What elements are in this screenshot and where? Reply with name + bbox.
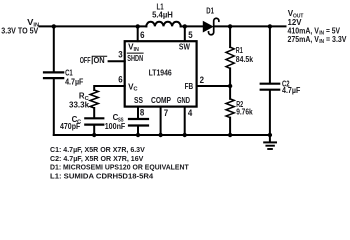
- svg-text:IN: IN: [134, 47, 139, 53]
- wire bottom rail: [54, 134, 270, 136]
- inductor L1: [146, 22, 180, 27]
- svg-text:SW: SW: [179, 41, 191, 51]
- svg-text:LT1946: LT1946: [149, 68, 172, 78]
- resistor R1: [229, 26, 231, 47]
- switch OFF/ON label: [80, 55, 105, 65]
- wire GND pin 4 stub: [184, 107, 186, 135]
- svg-text:4.7µF: 4.7µF: [65, 77, 83, 87]
- svg-text:7: 7: [164, 108, 168, 118]
- svg-text:= 3.3V: = 3.3V: [326, 34, 347, 44]
- svg-text:FB: FB: [185, 81, 194, 91]
- node junction GND bottom: [183, 133, 187, 137]
- svg-text:COMP: COMP: [151, 95, 171, 105]
- node junction pin5 tap: [183, 24, 187, 28]
- svg-text:3.3V TO 5V: 3.3V TO 5V: [1, 25, 38, 35]
- svg-text:D1: D1: [206, 5, 214, 15]
- node VOUT label: [288, 8, 347, 45]
- node junction CSS bottom: [136, 133, 140, 137]
- wire SHDN pin 3: [109, 60, 125, 62]
- wire pin 6 VIN stub: [137, 26, 139, 41]
- ground: [264, 141, 276, 143]
- svg-text:2: 2: [200, 75, 204, 85]
- svg-text:84.5k: 84.5k: [236, 54, 253, 64]
- svg-text:3: 3: [118, 50, 122, 60]
- svg-text:C2: 4.7µF, X5R OR X7R, 16V: C2: 4.7µF, X5R OR X7R, 16V: [50, 154, 144, 163]
- svg-text:IN: IN: [319, 31, 324, 37]
- node junction COMP bottom: [158, 133, 162, 137]
- svg-text:4.7µF: 4.7µF: [282, 85, 300, 95]
- node junction CC bottom: [92, 133, 96, 137]
- svg-text:470pF: 470pF: [60, 121, 80, 131]
- svg-text:5.4µH: 5.4µH: [152, 10, 173, 20]
- wire COMP pin 7 stub: [160, 107, 162, 135]
- capacitor CSS: [129, 118, 148, 120]
- resistor RC: [90, 90, 98, 108]
- svg-text:4: 4: [188, 108, 192, 118]
- node junction R1 tap: [228, 24, 232, 28]
- resistor R2: [229, 86, 231, 99]
- wire SS pin 8 stub: [137, 107, 139, 118]
- svg-text:6: 6: [118, 75, 122, 85]
- svg-text:GND: GND: [177, 95, 190, 105]
- wire top rail from VIN to inductor: [40, 25, 147, 27]
- note component list: [50, 145, 189, 181]
- svg-text:6: 6: [140, 30, 144, 40]
- svg-text:IN: IN: [319, 39, 324, 45]
- wire diode to VOUT: [214, 25, 285, 27]
- diode D1 (schottky): [203, 22, 212, 32]
- IC U1 LT1946 regulator box: [125, 41, 197, 106]
- svg-text:SS: SS: [134, 95, 143, 105]
- wire FB pin 2: [197, 85, 231, 87]
- svg-text:8: 8: [140, 108, 144, 118]
- svg-text:L1: SUMIDA CDRH5D18-5R4: L1: SUMIDA CDRH5D18-5R4: [50, 172, 154, 181]
- node junction C1 tap: [52, 24, 56, 28]
- svg-text:D1: MICROSEMI UPS120 OR EQUIVA: D1: MICROSEMI UPS120 OR EQUIVALENT: [50, 163, 189, 172]
- wire VC pin 6: [94, 86, 125, 90]
- capacitor CC: [85, 117, 103, 119]
- capacitor C1: [53, 26, 55, 71]
- wire pin 5 SW stub: [184, 26, 186, 41]
- node junction C2 tap: [268, 24, 272, 28]
- node VIN input label: [1, 17, 39, 35]
- svg-text:5: 5: [188, 30, 192, 40]
- svg-text:100nF: 100nF: [105, 121, 126, 131]
- node junction pin6 tap: [136, 24, 140, 28]
- svg-text:C1: 4.7µF, X5R OR X7R, 6.3V: C1: 4.7µF, X5R OR X7R, 6.3V: [50, 145, 145, 154]
- svg-text:SHDN: SHDN: [127, 53, 143, 63]
- capacitor C2: [269, 26, 271, 82]
- node junction C2 bottom: [268, 133, 272, 137]
- svg-text:9.76k: 9.76k: [236, 107, 253, 117]
- wire inductor to diode: [181, 25, 204, 27]
- node junction R2 bottom: [228, 133, 232, 137]
- svg-text:OFF: OFF: [80, 55, 91, 65]
- node junction FB: [228, 84, 232, 88]
- svg-text:275mA, V: 275mA, V: [288, 34, 320, 44]
- svg-text:33.3k: 33.3k: [69, 99, 89, 109]
- line SHDN overline: [127, 52, 143, 54]
